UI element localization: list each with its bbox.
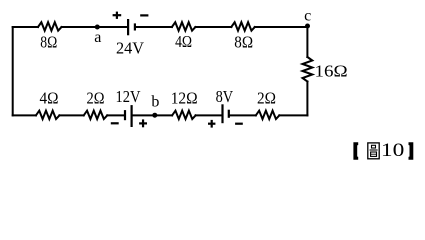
battery 12V minus sign [111, 122, 119, 124]
wire from R3 to node c [255, 26, 308, 28]
svg-text:8V: 8V [216, 87, 234, 106]
node b dot [152, 113, 157, 118]
svg-text:8Ω: 8Ω [40, 33, 57, 52]
battery B2 12V plates [124, 110, 126, 120]
svg-text:2Ω: 2Ω [87, 89, 105, 108]
resistor R4 16ohm right vertical [303, 57, 313, 82]
node a dot [95, 25, 100, 30]
resistor R6 2ohm bottom-left [84, 111, 108, 119]
resistor R8 2ohm bottom-right [256, 111, 279, 119]
battery B3 8V plates [221, 104, 223, 123]
wire right vertical upper [306, 26, 308, 57]
wire from battery 12V through node b to R7 [133, 114, 172, 116]
resistor R1 8ohm top-left [38, 22, 62, 30]
svg-text:16Ω: 16Ω [315, 62, 348, 81]
svg-text:10: 10 [381, 139, 404, 161]
wire from R1 to battery 24V [62, 26, 128, 28]
wire left vertical [12, 27, 14, 115]
wire from R2 to R3 [195, 26, 231, 28]
wire from R5 to R6 [59, 114, 83, 116]
wire top-left horizontal [13, 26, 38, 28]
svg-text:24V: 24V [116, 39, 145, 58]
wire bottom-left [13, 114, 36, 116]
caption left bracket [353, 142, 358, 160]
svg-text:4Ω: 4Ω [40, 89, 59, 108]
svg-text:12Ω: 12Ω [171, 89, 198, 108]
svg-text:12V: 12V [116, 87, 142, 106]
wire from R7 to battery 8V [196, 114, 222, 116]
wire right vertical lower [306, 82, 308, 116]
wire from battery 24V to R2 [136, 26, 172, 28]
svg-text:c: c [304, 8, 311, 25]
svg-text:a: a [94, 29, 101, 46]
svg-text:2Ω: 2Ω [257, 89, 276, 108]
caption right bracket [409, 142, 414, 160]
battery 24V minus sign [140, 14, 148, 16]
wire from battery 8V to R8 [230, 114, 256, 116]
resistor R5 4ohm bottom [36, 111, 60, 119]
svg-text:b: b [151, 94, 159, 111]
resistor R3 8ohm top-right [231, 22, 255, 30]
resistor R2 4ohm top [172, 22, 196, 30]
svg-text:8Ω: 8Ω [234, 32, 253, 51]
battery 12V plus sign [139, 119, 147, 127]
resistor R7 12ohm bottom [172, 111, 196, 119]
svg-text:4Ω: 4Ω [175, 32, 192, 51]
wire bottom-right [279, 114, 307, 116]
node c dot [305, 24, 310, 29]
battery 8V plus sign [208, 120, 215, 128]
battery 8V minus sign [235, 123, 243, 125]
battery B1 24V plates [127, 19, 129, 35]
caption glyph tu (figure) [368, 143, 379, 159]
battery 24V plus sign [113, 12, 122, 19]
wire from R6 to battery 12V [107, 114, 124, 116]
